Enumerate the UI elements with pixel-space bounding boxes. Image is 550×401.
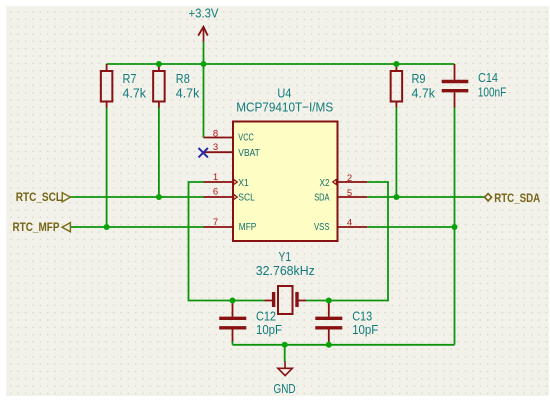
svg-text:GND: GND [274,381,296,396]
U4 pin 3 VBAT [204,151,235,153]
junction: VCC drop at bus [201,61,207,67]
wire: R9 bottom to SDA net [395,108,397,198]
svg-text:8: 8 [213,129,218,140]
junction: R9 bottom at SDA net [393,194,399,200]
svg-text:R8: R8 [176,71,190,86]
svg-text:X2: X2 [320,177,330,189]
wire: X2 pin to crystal right [306,182,388,301]
svg-text:5: 5 [347,188,352,199]
capacitor C12 [219,304,246,342]
junction: R8 bottom at SCL net [156,194,162,200]
svg-text:MCP79410T−I/MS: MCP79410T−I/MS [236,100,333,115]
svg-text:Y1: Y1 [279,249,292,264]
svg-text:7: 7 [213,217,218,228]
svg-text:+3.3V: +3.3V [189,6,219,21]
svg-text:4.7k: 4.7k [123,85,147,100]
svg-text:SCL: SCL [238,192,255,204]
svg-text:U4: U4 [277,85,291,100]
U4 pin 4 VSS [337,226,368,228]
svg-text:2: 2 [347,173,352,184]
wire: +3.3V symbol drop to bus [203,42,205,64]
junction: GND drop at ground rail [282,342,288,348]
svg-text:X1: X1 [238,177,249,189]
svg-text:SDA: SDA [314,192,329,204]
capacitor C13 [315,304,342,342]
svg-text:4: 4 [347,218,352,229]
capacitor C14 [442,64,469,108]
wire: C12 top lead connection [232,301,234,345]
svg-text:6: 6 [213,186,218,197]
svg-text:4.7k: 4.7k [176,85,200,100]
wire: RTC_MFP label to MFP pin [71,226,204,228]
junction: C12 top at crystal net [230,298,236,304]
junction: R7 bottom at MFP net [104,224,110,230]
svg-text:RTC_SCL: RTC_SCL [16,192,62,204]
junction: right rail at VSS net [452,224,458,230]
hierarchical label RTC_SDA [485,194,492,201]
junction: R8 top at bus [156,61,162,67]
wire: bus down to VCC pin [203,64,205,138]
resistor R7 [101,64,113,108]
wire: C14 bottom down right side rail [454,108,456,345]
svg-text:C14: C14 [478,70,498,85]
svg-text:100nF: 100nF [478,85,507,100]
svg-text:VSS: VSS [314,221,330,233]
U4 pin 5 SDA [337,196,368,198]
svg-text:1: 1 [213,172,218,183]
wire: VSS pin to right rail [367,226,454,228]
resistor R9 [391,64,403,108]
svg-text:10pF: 10pF [256,322,282,337]
wire: SDA pin to RTC_SDA label [367,196,484,198]
crystal Y1 [265,286,307,314]
power symbol +3.3V arrow [198,27,208,42]
svg-text:3: 3 [213,142,218,153]
hierarchical label RTC_SCL [62,193,70,202]
wire: bottom ground rail [233,344,455,346]
ground symbol GND [278,362,292,376]
svg-text:RTC_SDA: RTC_SDA [494,193,540,205]
wire: +3.3V top power bus [107,63,455,65]
svg-text:4.7k: 4.7k [412,85,436,100]
svg-text:R9: R9 [412,71,426,86]
U4 pin 6 SCL [204,196,235,198]
wire: X1 pin to crystal left [189,182,265,301]
wire: RTC_SCL label to SCL pin [70,196,204,198]
wire: C13 top lead connection [328,301,330,345]
U4 pin 7 MFP [204,226,235,228]
svg-text:VCC: VCC [238,132,254,144]
U4 pin 8 VCC [204,137,235,139]
IC U4 MCP79410T body [233,122,338,242]
svg-text:MFP: MFP [239,221,256,233]
junction: C13 top at crystal net [326,298,332,304]
U4 pin 2 X2 [337,181,368,183]
junction: C13 bottom at ground rail [326,342,332,348]
U4 pin 1 X1 [204,181,235,183]
wire: ground rail to GND symbol [284,345,286,362]
svg-text:R7: R7 [123,71,137,86]
svg-text:RTC_MFP: RTC_MFP [13,222,60,234]
svg-text:32.768kHz: 32.768kHz [256,263,315,278]
wire: R7 bottom to MFP net [106,108,108,228]
no-connect X on VBAT pin [199,148,208,157]
hierarchical label RTC_MFP [62,223,70,232]
resistor R8 [153,64,165,108]
wire: R8 bottom to SCL net [158,108,160,198]
svg-text:10pF: 10pF [352,322,378,337]
svg-text:VBAT: VBAT [238,147,260,159]
junction: R9 top at bus [393,61,399,67]
